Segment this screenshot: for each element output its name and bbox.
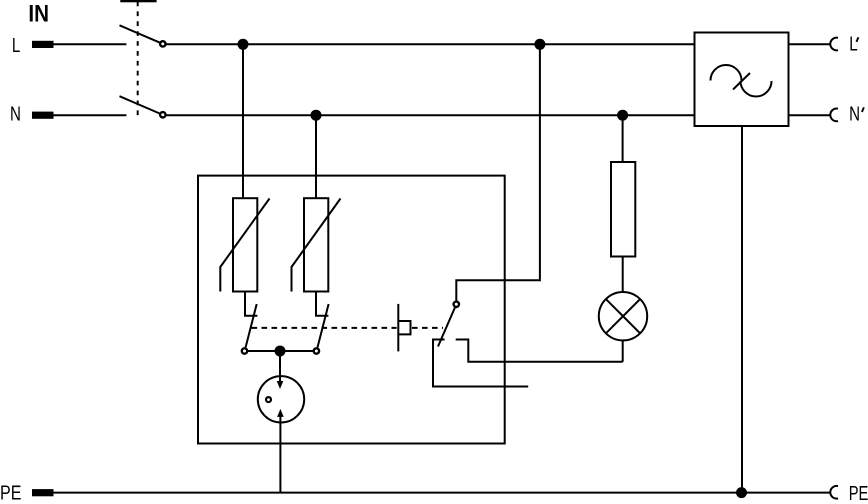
- thermal actuator arrow (top): [279, 351, 281, 382]
- wire L output: [789, 43, 830, 45]
- wire N input: [53, 114, 126, 116]
- switch S2 blade (N): [120, 96, 160, 113]
- varistor MOV1 body: [233, 198, 257, 291]
- filter unit box: [695, 33, 789, 127]
- signal switch NO contact to lamp: [456, 340, 623, 362]
- thermal actuator body circle: [258, 376, 304, 422]
- wire N output: [789, 114, 830, 116]
- wire N bus: [166, 114, 694, 116]
- actuator latch bracket: [398, 321, 410, 334]
- thermal disconnect F1 pivot circle: [242, 348, 247, 353]
- svg-text:N: N: [10, 103, 21, 125]
- svg-text:PE: PE: [0, 482, 21, 504]
- terminal L' connector: [830, 38, 838, 51]
- wire L bus: [166, 43, 694, 45]
- disconnector coupling bar: [120, 0, 156, 2]
- thermal disconnect F2 blade: [318, 304, 329, 347]
- resistor R1: [611, 162, 635, 257]
- node N / resistor junction: [617, 110, 628, 121]
- wire filter to PE rail: [741, 126, 743, 493]
- signal switch blade: [438, 307, 455, 346]
- coupling dashed link (horizontal left): [252, 327, 397, 329]
- svg-text:PE: PE: [849, 483, 868, 504]
- coupling dashed link (horizontal right): [412, 327, 443, 329]
- node N / MOV2 junction: [311, 110, 322, 121]
- varistor MOV1 diagonal stroke: [220, 199, 269, 292]
- signal switch feed wire (from L junction): [456, 44, 540, 301]
- switch S2 pivot circle: [160, 112, 165, 117]
- signal switch pivot circle: [454, 302, 459, 307]
- signal switch pole contact / remote stub: [433, 340, 528, 387]
- node L / signal-feed junction: [534, 39, 545, 50]
- terminal N: [32, 112, 54, 119]
- svg-text:IN: IN: [28, 1, 49, 28]
- terminal PE: [32, 489, 54, 496]
- actuator lever: [397, 304, 399, 352]
- thermal disconnect F1 blade: [246, 304, 257, 347]
- node L / MOV1 junction: [238, 39, 249, 50]
- wire L junction to varistor MOV1: [242, 44, 244, 198]
- wire disconnect common: [248, 350, 313, 352]
- wire N junction to varistor MOV2: [315, 115, 317, 198]
- node PE junction: [736, 487, 747, 498]
- varistor MOV2 body: [304, 198, 328, 291]
- coupling dashed link (vertical): [137, 2, 139, 119]
- svg-text:L: L: [849, 33, 857, 55]
- thermal disconnect F1 fixed lead: [245, 292, 257, 316]
- thermal actuator arrow (bottom, from PE): [279, 416, 281, 492]
- varistor MOV2 diagonal stroke: [292, 199, 341, 292]
- thermal actuator indicator circle: [266, 397, 271, 402]
- indicator lamp H1: [599, 292, 647, 340]
- wire lamp to resistor: [622, 257, 624, 293]
- SPD enclosure box: [198, 176, 505, 444]
- wire resistor to N junction: [622, 115, 624, 162]
- thermal disconnect F2 fixed lead: [316, 292, 328, 316]
- wire L input: [53, 43, 126, 45]
- wire lamp bottom: [622, 340, 624, 362]
- switch S1 pivot circle: [160, 41, 165, 46]
- svg-text:N: N: [849, 104, 860, 126]
- node disconnect common: [275, 346, 286, 357]
- switch S1 blade (L): [120, 25, 160, 42]
- filter sine symbol: [711, 65, 742, 81]
- terminal N' connector: [830, 109, 838, 122]
- thermal disconnect F2 pivot circle: [314, 348, 319, 353]
- PE rail: [53, 492, 830, 494]
- svg-text:L: L: [12, 35, 20, 57]
- terminal PE' connector: [830, 486, 838, 499]
- terminal L: [32, 41, 54, 48]
